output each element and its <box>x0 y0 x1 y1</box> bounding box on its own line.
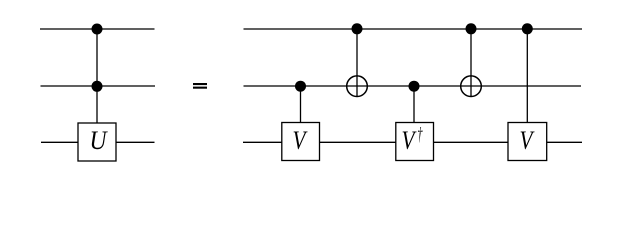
wire: vertical connector CNOT column 2 <box>356 29 358 97</box>
CNOT target on qubit 2 (column 2) <box>347 76 368 97</box>
svg-text:V: V <box>402 125 417 155</box>
control dot on qubit 1 (column 5) <box>522 23 533 34</box>
wire: vertical connector control q2 to V-dagger box (column 3) <box>413 86 415 123</box>
wire: right circuit qubit 3 segment c <box>434 141 509 143</box>
svg-text:V: V <box>293 125 308 155</box>
control dot on qubit 2 (column 3) <box>409 81 420 92</box>
CNOT target on qubit 2 (column 4) <box>461 76 482 97</box>
control dot on qubit 1 (column 4) <box>466 23 477 34</box>
wire: left circuit qubit 3 right segment <box>116 141 155 143</box>
wire: left circuit qubit 3 left segment <box>41 141 78 143</box>
label V-dagger (column 3) <box>402 125 423 155</box>
wire: left circuit qubit 2 <box>41 85 156 87</box>
wire: right circuit qubit 3 segment d <box>547 141 583 143</box>
svg-text:U: U <box>90 125 109 155</box>
wire: right circuit qubit 2 <box>244 85 582 87</box>
wire: right circuit qubit 1 <box>244 28 583 30</box>
gate box U <box>78 123 116 161</box>
control dot on qubit 2 (column 1) <box>295 81 306 92</box>
wire: left circuit qubit 1 <box>40 28 155 30</box>
wire: vertical connector CNOT column 4 <box>470 29 472 97</box>
gate box V-dagger (column 3) <box>396 123 434 161</box>
wire: vertical connector controls to U box <box>96 29 98 123</box>
control dot on qubit 2 (left circuit) <box>92 81 103 92</box>
wire: right circuit qubit 3 segment b <box>320 141 397 143</box>
wire: vertical connector control q1 to V box (column 5) <box>526 29 528 123</box>
svg-text:†: † <box>417 125 422 146</box>
wire: right circuit qubit 3 segment a <box>243 141 282 143</box>
svg-text:V: V <box>520 125 535 155</box>
control dot on qubit 1 (column 2) <box>352 23 363 34</box>
control dot on qubit 1 (left circuit) <box>92 24 103 35</box>
gate box V (column 1) <box>282 123 320 161</box>
equals sign <box>193 83 207 89</box>
wire: vertical connector control q2 to V box (column 1) <box>300 86 302 123</box>
gate box V (column 5) <box>508 123 547 161</box>
